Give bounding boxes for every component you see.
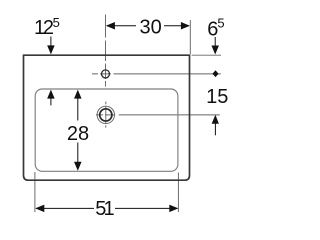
svg-text:5: 5 (53, 15, 60, 30)
svg-text:5: 5 (217, 15, 224, 30)
svg-text:15: 15 (206, 86, 228, 108)
svg-text:1: 1 (104, 198, 115, 220)
svg-text:30: 30 (139, 17, 161, 39)
svg-text:28: 28 (67, 123, 89, 145)
